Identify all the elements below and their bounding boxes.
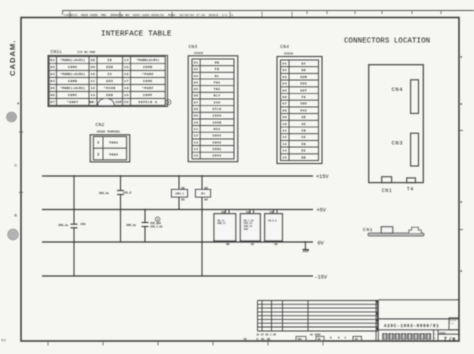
svg-text:04: 04 — [181, 198, 185, 201]
svg-text:7: 7 — [444, 337, 447, 343]
svg-text:03: 03 — [282, 76, 287, 79]
svg-text:170 NC.PWR: 170 NC.PWR — [77, 51, 95, 54]
svg-text:08: 08 — [204, 187, 208, 190]
svg-text:15: 15 — [194, 155, 199, 158]
svg-text:BB: BB — [301, 156, 306, 159]
svg-text:BB1: BB1 — [298, 338, 303, 341]
svg-text:14: 14 — [194, 148, 199, 151]
svg-text:16: 16 — [124, 72, 129, 76]
svg-text:CX1,8: CX1,8 — [123, 192, 131, 195]
junction dots — [73, 175, 306, 243]
svg-text:EB: EB — [301, 143, 306, 146]
revision table footer text — [244, 333, 362, 341]
wire through COM1,2 — [178, 176, 180, 210]
svg-text:07: 07 — [50, 100, 55, 104]
svg-text:CONNECTORS LOCATION: CONNECTORS LOCATION — [344, 38, 430, 46]
svg-text:08: 08 — [226, 243, 230, 246]
wire with capacitor CX1,8 — [117, 176, 124, 242]
title block frame — [378, 300, 459, 330]
svg-text:INV: INV — [300, 103, 307, 106]
svg-text:OB: OB — [215, 61, 220, 64]
power rail 0V — [42, 240, 325, 246]
power rail +5V — [42, 208, 327, 214]
svg-text:18: 18 — [124, 86, 129, 90]
svg-text:100A: 100A — [212, 115, 221, 118]
svg-text:TOH1: TOH1 — [109, 141, 118, 145]
svg-text:09: 09 — [194, 115, 199, 118]
binder hole top — [7, 112, 17, 122]
svg-text:INTERFACE TABLE: INTERFACE TABLE — [101, 31, 172, 39]
CN1 side view connector 2 — [409, 227, 421, 233]
svg-text:TH2: TH2 — [214, 88, 221, 91]
svg-text:06: 06 — [50, 93, 55, 97]
svg-text:02: 02 — [194, 68, 199, 71]
svg-text:X008: X008 — [439, 332, 446, 335]
bottom ruler ticks — [48, 342, 323, 346]
svg-text:GC: GC — [301, 62, 306, 65]
connector CN1 tab on board — [382, 177, 393, 195]
svg-text:VV2: VV2 — [300, 109, 307, 112]
svg-text:16: 16 — [270, 211, 274, 214]
svg-text:16: 16 — [246, 211, 250, 214]
svg-text:08: 08 — [194, 108, 199, 111]
svg-text:IR: IR — [107, 59, 112, 62]
svg-text:PJ: PJ — [2, 340, 6, 344]
IC power box CM,5,9 — [265, 210, 283, 247]
connector CN4 label — [280, 44, 293, 56]
svg-text:15: 15 — [251, 243, 255, 246]
svg-text:10: 10 — [282, 123, 287, 126]
svg-text:NR-: NR- — [89, 100, 96, 104]
svg-text:50V,1u: 50V,1u — [126, 224, 136, 227]
svg-text:03: 03 — [194, 75, 199, 78]
svg-text:10: 10 — [91, 72, 96, 76]
svg-text:SHIELD G: SHIELD G — [138, 101, 157, 104]
svg-text:01: 01 — [194, 61, 199, 64]
svg-text:CON1: CON1 — [212, 148, 221, 151]
svg-text:14: 14 — [124, 58, 129, 62]
svg-text:CADAM.: CADAM. — [8, 40, 17, 76]
CN1 side view connector 1 — [381, 227, 392, 233]
svg-text:COMA: COMA — [68, 66, 78, 69]
svg-text:*GNDY: *GNDY — [67, 100, 79, 104]
svg-text:*PWRD(ALM4): *PWRD(ALM4) — [136, 58, 159, 62]
title block right cells — [434, 330, 459, 343]
svg-text:12: 12 — [91, 86, 96, 90]
connector T4 tab on board — [407, 178, 416, 192]
svg-text:TH1: TH1 — [214, 81, 221, 84]
CN1L cable notch — [98, 98, 114, 105]
svg-text:08: 08 — [222, 211, 226, 214]
svg-text:D: D — [434, 337, 436, 340]
capacitor CX6 labels — [58, 223, 85, 227]
svg-text:CN2: CN2 — [96, 122, 105, 128]
svg-text:06: 06 — [282, 96, 287, 99]
svg-text:15: 15 — [282, 156, 287, 159]
svg-text:IS: IS — [107, 73, 112, 76]
svg-text:VDM: VDM — [300, 76, 307, 79]
CN1 side view board bar — [368, 233, 424, 236]
revision table — [258, 301, 378, 332]
IC power box CM,7,15 group — [240, 210, 260, 247]
svg-text:+5V: +5V — [317, 208, 327, 214]
svg-text:07: 07 — [194, 101, 199, 104]
svg-text:B: B — [330, 337, 332, 340]
component DP1 — [196, 187, 211, 202]
svg-text:*PWRE: *PWRE — [142, 72, 154, 76]
svg-text:03: 03 — [50, 72, 55, 76]
svg-text:E: E — [434, 333, 436, 336]
svg-text:HIROSE: HIROSE — [194, 52, 204, 55]
connector table CN1L — [48, 55, 168, 106]
svg-text:+15V: +15V — [316, 174, 329, 180]
svg-text:01 07 09 1 86: 01 07 09 1 86 — [257, 333, 277, 336]
svg-text:49: 49 — [355, 338, 359, 341]
svg-text:FG: FG — [301, 96, 306, 99]
binder hole bottom — [8, 229, 19, 240]
wire through DP1 — [201, 176, 203, 276]
connector table CN2 — [90, 135, 130, 162]
svg-text:COMC: COMC — [68, 94, 78, 97]
svg-text:05: 05 — [50, 86, 55, 90]
svg-text:MCC: MCC — [214, 128, 221, 131]
svg-text:19: 19 — [124, 93, 129, 97]
svg-text:A20C-1003-0090/01: A20C-1003-0090/01 — [384, 324, 439, 329]
svg-text:*MCON: *MCON — [104, 86, 116, 90]
svg-text:CH8,17: CH8,17 — [217, 222, 226, 225]
svg-text:50V,1u: 50V,1u — [99, 192, 109, 195]
svg-text:2: 2 — [97, 152, 99, 156]
svg-text:08: 08 — [181, 187, 185, 190]
right border tick marks — [458, 56, 463, 272]
svg-text:10: 10 — [194, 121, 199, 124]
svg-text:12: 12 — [282, 136, 287, 139]
svg-text:COMF: COMF — [143, 94, 153, 97]
svg-text:01: 01 — [50, 58, 55, 62]
svg-text:50V,1u: 50V,1u — [58, 224, 68, 227]
connector CN4 on board — [392, 80, 419, 114]
svg-text:LASSELE: AB3S USER: MNL DRAWI: LASSELE: AB3S USER: MNL DRAWING NO: A20C… — [64, 13, 233, 17]
svg-text:CX6: CX6 — [81, 223, 86, 226]
svg-text:GDS: GDS — [106, 80, 113, 83]
svg-text:04: 04 — [204, 198, 208, 201]
svg-text:HIROSE: HIROSE — [284, 53, 294, 56]
title block divider — [376, 300, 378, 341]
power rail +15V — [42, 174, 329, 180]
svg-text:CH8: CH8 — [244, 228, 249, 231]
svg-text:12: 12 — [194, 135, 199, 138]
svg-text:CN4: CN4 — [280, 44, 289, 50]
svg-text:01: 01 — [282, 62, 287, 65]
svg-text:05: 05 — [282, 89, 287, 92]
svg-text:8: 8 — [452, 337, 455, 343]
svg-text:14: 14 — [282, 150, 287, 153]
svg-text:FB: FB — [215, 68, 220, 71]
svg-text:COU1: COU1 — [212, 135, 221, 138]
svg-text:09: 09 — [91, 65, 96, 69]
connector CN2 label — [96, 122, 121, 133]
svg-text:08: 08 — [91, 58, 96, 62]
svg-text:B. 8B. BB.: B. 8B. BB. — [257, 338, 272, 341]
svg-text:20: 20 — [124, 100, 129, 104]
IC power box CM,11 / CH8,17 — [214, 210, 236, 247]
svg-text:AB: AB — [301, 116, 306, 119]
svg-text:COME: COME — [143, 80, 153, 83]
svg-text:*PWRC(+ALM3): *PWRC(+ALM3) — [60, 86, 85, 90]
svg-text:CX2,3&4: CX2,3&4 — [150, 222, 161, 225]
svg-text:CB: CB — [301, 129, 306, 132]
svg-text:COU2: COU2 — [212, 141, 221, 144]
connector CN1L label — [51, 49, 96, 55]
svg-text:20P: 20P — [116, 101, 122, 104]
svg-text:100B: 100B — [212, 121, 221, 124]
svg-text:4B: 4B — [244, 338, 248, 341]
svg-text:GND: GND — [106, 94, 113, 97]
svg-text:*PWRA(+ALM1): *PWRA(+ALM1) — [60, 58, 85, 62]
svg-text:11: 11 — [91, 79, 96, 83]
svg-text:1.8: 1.8 — [450, 322, 454, 325]
svg-text:CM,5,9: CM,5,9 — [268, 219, 277, 222]
svg-text:T4: T4 — [407, 186, 414, 192]
svg-text:*PWRB(+ALM2): *PWRB(+ALM2) — [60, 72, 85, 76]
svg-text:08: 08 — [282, 109, 287, 112]
svg-text:02: 02 — [282, 69, 287, 72]
component COM1,2 — [172, 187, 188, 202]
top ruler line — [62, 11, 474, 16]
svg-text:COM1.2: COM1.2 — [175, 193, 184, 196]
svg-text:0V: 0V — [318, 240, 325, 246]
svg-text:01 3088: 01 3088 — [310, 333, 321, 336]
svg-text:RLY: RLY — [214, 95, 221, 98]
board outline — [369, 65, 424, 183]
svg-text:05: 05 — [194, 88, 199, 91]
svg-text:11: 11 — [194, 128, 199, 131]
svg-text:A: A — [345, 337, 347, 340]
svg-text:09: 09 — [282, 116, 287, 119]
svg-text:COV2: COV2 — [212, 155, 221, 158]
svg-text:-15V: -15V — [315, 274, 328, 280]
svg-text:*PWRF: *PWRF — [142, 86, 154, 90]
svg-text:25V: 25V — [214, 101, 221, 104]
svg-text:15: 15 — [124, 65, 129, 69]
svg-text:VDT: VDT — [300, 89, 307, 92]
wire with capacitor CX2-CX10 — [142, 210, 149, 243]
svg-text:DP1: DP1 — [201, 193, 206, 196]
svg-text:13: 13 — [282, 143, 287, 146]
svg-text:VD5: VD5 — [300, 83, 307, 86]
FANUC company name (CJK blocks) — [382, 333, 431, 339]
svg-text:13: 13 — [91, 93, 96, 97]
svg-text:COMB: COMB — [68, 80, 78, 83]
connector table CN4 — [277, 57, 322, 164]
svg-text:EE: EE — [301, 150, 306, 153]
svg-text:CN4: CN4 — [392, 87, 404, 93]
svg-text:CN1: CN1 — [382, 188, 393, 194]
svg-text:COMD: COMD — [143, 66, 153, 69]
capacitor CX1,8 labels — [99, 192, 132, 196]
small edit box — [449, 318, 459, 330]
svg-text:HL: HL — [215, 75, 220, 78]
svg-text:CN1: CN1 — [363, 227, 373, 233]
svg-text:B: B — [338, 337, 340, 340]
svg-text:CE: CE — [301, 136, 306, 139]
svg-text:C: C — [14, 163, 17, 168]
svg-text:17: 17 — [124, 79, 129, 83]
svg-text:AE: AE — [301, 123, 306, 126]
svg-text:18: 18 — [274, 243, 278, 246]
capacitor CX2-CX10 labels — [126, 217, 163, 228]
svg-text:13: 13 — [194, 141, 199, 144]
svg-text:TOH2: TOH2 — [109, 152, 118, 156]
connector CN3 label — [189, 44, 204, 55]
svg-text:STLK: STLK — [212, 108, 221, 111]
left border tick marks — [14, 103, 23, 218]
svg-text:CN1L: CN1L — [51, 49, 63, 55]
svg-text:04: 04 — [282, 83, 287, 86]
svg-text:07: 07 — [282, 103, 287, 106]
svg-text:06: 06 — [194, 95, 199, 98]
top header text strip — [64, 12, 292, 18]
svg-text:B: B — [14, 213, 17, 218]
svg-text:GDR: GDR — [106, 66, 113, 69]
svg-text:11: 11 — [282, 129, 287, 132]
svg-text:04: 04 — [50, 79, 55, 83]
connector table CN3 — [188, 56, 238, 162]
svg-text:CN3: CN3 — [189, 44, 198, 50]
connector CN3 on board — [392, 133, 419, 166]
ground symbol — [302, 242, 309, 252]
svg-text:02: 02 — [50, 65, 55, 69]
svg-text:CN3: CN3 — [392, 141, 404, 147]
CADAM stamp (rotated) — [8, 40, 17, 76]
svg-text:OSADA TERMINAL: OSADA TERMINAL — [97, 130, 121, 133]
svg-text:1: 1 — [97, 141, 99, 145]
svg-text:CX5,7,10: CX5,7,10 — [150, 225, 163, 228]
power rail -15V — [42, 274, 328, 280]
svg-text:04: 04 — [194, 81, 199, 84]
CN1L screw hole — [166, 100, 171, 105]
wire with capacitor CX6 — [71, 176, 78, 276]
svg-text:GB: GB — [301, 69, 306, 72]
